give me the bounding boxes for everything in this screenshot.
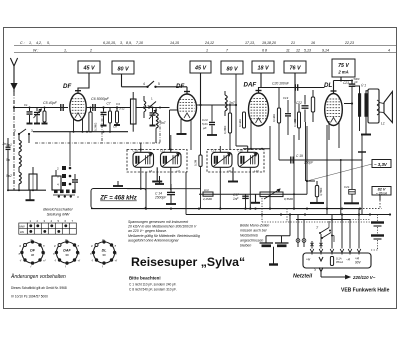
- wire 80V box 2 down riser: [235, 74, 237, 146]
- wire DAF bottom: [243, 148, 270, 150]
- svg-text:6 8: 6 8: [262, 49, 267, 53]
- resistor R1 input: [43, 111, 46, 122]
- voltage box 76V: [284, 61, 306, 73]
- svg-text:C11: C11: [160, 148, 165, 152]
- ground C21: [344, 202, 359, 204]
- svg-text:DAF: DAF: [244, 82, 257, 89]
- svg-text:DF: DF: [176, 83, 184, 90]
- svg-text:0,5MΩ: 0,5MΩ: [284, 197, 294, 201]
- svg-text:Änderungen vorbehalten: Änderungen vorbehalten: [10, 273, 66, 280]
- wire electrolytics ground: [273, 247, 275, 264]
- svg-text:1,: 1,: [64, 49, 67, 53]
- wire IF1 right riser: [185, 172, 187, 215]
- svg-text:Netzbetrieb: Netzbetrieb: [240, 234, 258, 238]
- loudspeaker L1: [368, 89, 379, 123]
- ground left: [29, 190, 31, 200]
- tube V2 DF mixer: [178, 94, 197, 121]
- wire rail B: [186, 214, 390, 216]
- socket pins on Netzteil top: [310, 249, 314, 253]
- IF transformer 1a: [133, 152, 154, 167]
- svg-text:80 V: 80 V: [117, 66, 128, 72]
- IF transformer 2a: [212, 152, 233, 167]
- svg-text:C :: C :: [20, 41, 25, 45]
- svg-text:C7: C7: [107, 102, 111, 106]
- tube socket diagram DAF96: [56, 242, 77, 263]
- wire to IF2 primary: [236, 145, 248, 147]
- svg-text:45 V: 45 V: [194, 65, 206, 71]
- svg-text:C15: C15: [211, 148, 217, 152]
- dotted rail to battery: [350, 219, 370, 221]
- svg-text:96: 96: [31, 253, 35, 257]
- label box ZF = 468 kHz: [91, 189, 146, 209]
- wire ground rail A: [91, 208, 360, 210]
- svg-text:C 8 nicht 540 pF, sondern 310: C 8 nicht 540 pF, sondern 310 pF.: [129, 288, 177, 292]
- svg-text:+H: +H: [306, 258, 311, 262]
- wire under IF1: [127, 188, 201, 190]
- voltage box 18V: [252, 61, 274, 73]
- wire oscillator section: [136, 107, 170, 109]
- voltage box 45V mixer: [190, 61, 211, 73]
- svg-text:4: 4: [143, 82, 145, 86]
- capacitor C21: [349, 190, 356, 195]
- svg-text:4,7MΩ: 4,7MΩ: [319, 188, 323, 196]
- resistor R8: [298, 112, 301, 128]
- svg-text:an 220 V~ gegen Masse.: an 220 V~ gegen Masse.: [128, 229, 167, 233]
- svg-text:5: 5: [158, 82, 160, 86]
- svg-text:80 V: 80 V: [226, 66, 237, 72]
- tube socket diagram DL96: [93, 242, 114, 263]
- wire to V2 anode: [156, 86, 188, 88]
- svg-text:0,1MΩ: 0,1MΩ: [272, 114, 276, 122]
- voltage box 80V IF: [221, 61, 243, 74]
- svg-text:C3: C3: [116, 102, 120, 106]
- svg-text:1,: 1,: [29, 41, 32, 45]
- wire V2 anode out: [197, 104, 237, 106]
- svg-text:2n: 2n: [2, 142, 7, 146]
- svg-text:C6 5000pF: C6 5000pF: [91, 97, 110, 101]
- resistor R5 pill: [228, 113, 231, 133]
- svg-text:L7: L7: [177, 169, 181, 173]
- svg-text:C 19: C 19: [296, 154, 303, 158]
- wire riser x340: [340, 160, 342, 215]
- svg-text:Netzteil: Netzteil: [293, 274, 313, 280]
- tube socket diagram DF96: [22, 242, 43, 263]
- svg-text:0,2M: 0,2M: [194, 159, 198, 166]
- wire AF line: [199, 193, 307, 195]
- IF filter block 2 dashed: [207, 150, 264, 173]
- ground AF: [255, 194, 257, 203]
- tube V1 DF RF amplifier: [70, 93, 86, 121]
- wire 82V box lead: [379, 195, 381, 200]
- mains lead 220/110V: [320, 272, 322, 278]
- wire DAF pin down: [250, 120, 252, 150]
- capacitor C8: [116, 111, 119, 123]
- svg-text:DAF: DAF: [63, 249, 71, 253]
- svg-text:müssen auch bei: müssen auch bei: [240, 229, 267, 233]
- electrolytic C27: [281, 236, 283, 243]
- wire riser x146: [145, 172, 147, 209]
- svg-text:VEB Funkwerk Halle: VEB Funkwerk Halle: [341, 288, 390, 294]
- wire C23 down: [351, 87, 353, 190]
- wire IF2 top leads: [219, 146, 221, 152]
- power supply box Netzteil: [303, 253, 371, 268]
- frame coil Sp3: [29, 174, 37, 190]
- svg-text:2: 2: [14, 129, 16, 133]
- IF transformer 2b: [238, 152, 259, 167]
- band switch contacts column: [62, 166, 66, 170]
- svg-text:4: 4: [388, 49, 390, 53]
- svg-text:L1: L1: [381, 122, 385, 126]
- wire secondary top: [366, 91, 368, 94]
- svg-text:1: 1: [206, 49, 208, 53]
- resistor R7: [277, 108, 280, 123]
- coupling coil block: [52, 176, 61, 190]
- svg-text:21: 21: [290, 41, 295, 45]
- ground above ZF box: [117, 181, 119, 186]
- capacitor C23 5000pF: [351, 81, 353, 84]
- svg-text:C23: C23: [343, 81, 349, 85]
- svg-text:W :: W :: [33, 49, 38, 53]
- svg-text:− 3,3V: − 3,3V: [374, 162, 388, 167]
- dotted battery line: [286, 209, 288, 222]
- IF transformer 1b: [161, 152, 182, 167]
- wire V1 anode to oscillator: [86, 107, 131, 109]
- svg-text:20 kΩ/V in den Meßbereichen 30: 20 kΩ/V in den Meßbereichen 300/100/10 V: [127, 225, 197, 229]
- svg-text:5,13: 5,13: [304, 49, 311, 53]
- svg-text:Sp1: Sp1: [6, 143, 12, 147]
- wire electrolytic feed: [289, 215, 291, 236]
- svg-text:6,10,15,: 6,10,15,: [103, 41, 116, 45]
- battery B1: [371, 221, 384, 223]
- svg-text:DF: DF: [30, 249, 36, 253]
- grounds V1 input: [29, 122, 31, 124]
- IF filter block 1 dashed: [127, 150, 187, 173]
- svg-text:2: 2: [89, 49, 92, 53]
- svg-text:0,1A: 0,1A: [336, 257, 342, 261]
- wire grid junction: [306, 180, 308, 182]
- svg-text:Bitte beachten!: Bitte beachten!: [129, 276, 161, 281]
- dotted pot-switch link: [261, 198, 263, 222]
- svg-text:C22: C22: [296, 101, 302, 105]
- svg-text:Reisesuper „Sylva“: Reisesuper „Sylva“: [131, 255, 245, 269]
- output transformer U1 secondary: [365, 94, 368, 117]
- wire V2 grid left: [170, 109, 179, 111]
- pointer line to -3.3V box: [307, 164, 372, 181]
- svg-text:12: 12: [296, 49, 300, 53]
- tube V4 DL output: [325, 94, 343, 126]
- capacitor C22: [302, 105, 309, 107]
- svg-text:Spannungen gemessen mit Instru: Spannungen gemessen mit Instrument: [128, 220, 189, 224]
- wire 18V box down to DAF: [259, 73, 262, 93]
- svg-text:75 V: 75 V: [338, 63, 349, 69]
- svg-text:MW: MW: [20, 224, 25, 228]
- switch contact 5: [154, 86, 156, 88]
- capacitor C19: [287, 100, 289, 113]
- svg-text:C16: C16: [238, 148, 244, 152]
- svg-text:DF: DF: [63, 83, 71, 90]
- resistor R 2.2M: [203, 192, 213, 196]
- svg-text:22,23: 22,23: [344, 41, 354, 45]
- wire 75V box to DL anode: [334, 77, 353, 94]
- switch contact 4: [146, 86, 148, 88]
- antenna lead dash-dot: [13, 92, 15, 190]
- wire IF1 bottom leads: [140, 167, 142, 188]
- svg-text:95mA: 95mA: [336, 260, 343, 264]
- voltage box 45V RF stage: [78, 61, 100, 73]
- band switch arm oscillator: [148, 106, 150, 108]
- svg-text:11: 11: [286, 49, 290, 53]
- svg-text:8,9,: 8,9,: [126, 41, 132, 45]
- wire mid rails right: [296, 219, 350, 221]
- volume potentiometer 0.5M log: [260, 192, 283, 197]
- resistor R6: [199, 155, 202, 166]
- svg-text:C1: C1: [24, 103, 28, 107]
- electrolytic C26: [265, 236, 267, 243]
- svg-text:ausgeführt ohne Antennensignal: ausgeführt ohne Antennensignal: [128, 238, 178, 242]
- svg-text:IV 10/10 Ps 1694/57 5000: IV 10/10 Ps 1694/57 5000: [11, 295, 48, 299]
- wire 45V box to V1 anode: [78, 73, 89, 91]
- svg-text:C5 40pF: C5 40pF: [43, 101, 58, 105]
- svg-text:C21: C21: [344, 185, 350, 189]
- wire DAF pin risers: [250, 120, 252, 149]
- wire 76V box down: [294, 73, 296, 103]
- svg-text:1k3: 1k3: [204, 188, 209, 192]
- svg-text:μF: μF: [202, 126, 207, 130]
- svg-text:L6: L6: [149, 169, 153, 173]
- svg-text:−A: −A: [346, 258, 350, 262]
- wire antenna to V1 grid: [14, 107, 68, 109]
- box -3.3V: [372, 160, 391, 168]
- svg-text:5,: 5,: [47, 41, 50, 45]
- svg-text:C20 100nF: C20 100nF: [272, 82, 290, 86]
- tuning gang link dash-dot: [35, 142, 160, 144]
- svg-text:14,15: 14,15: [170, 41, 179, 45]
- wire pot drop: [293, 194, 295, 208]
- band switch strip: [54, 190, 58, 194]
- svg-text:LW: LW: [20, 230, 24, 234]
- mains socket S: [319, 268, 323, 272]
- svg-text:90V: 90V: [355, 261, 362, 265]
- resistor R10 4.7M: [315, 186, 318, 197]
- resistor R2 pill: [89, 112, 92, 132]
- coil L4 oscillator: [156, 113, 158, 117]
- wire transformer secondary bottom to ground: [365, 117, 367, 135]
- tube V3 DAF demodulator: [249, 93, 269, 126]
- wire HT rail: [122, 86, 148, 88]
- trimmer C9: [152, 108, 154, 113]
- svg-text:220/110 V~: 220/110 V~: [352, 275, 376, 280]
- coil L5 feedback: [225, 95, 227, 99]
- resistor R3: [109, 111, 112, 123]
- oscillator coil L3: [131, 99, 137, 124]
- svg-text:DL: DL: [102, 249, 107, 253]
- wire V2 cathode ground: [180, 119, 182, 134]
- wire rail A dashed tail: [360, 208, 382, 210]
- svg-text:0,1MΩ: 0,1MΩ: [238, 119, 242, 127]
- svg-text:3,: 3,: [120, 41, 123, 45]
- svg-text:96: 96: [102, 253, 106, 257]
- svg-text:Stellung MW: Stellung MW: [47, 212, 71, 217]
- svg-text:3n7: 3n7: [160, 121, 166, 125]
- svg-text:pF: pF: [354, 80, 358, 84]
- wire R6 riser: [200, 105, 202, 155]
- svg-text:18 V: 18 V: [257, 65, 268, 71]
- svg-text:45 V: 45 V: [82, 65, 94, 71]
- rail junction dots: [145, 208, 147, 210]
- svg-text:250pF: 250pF: [303, 161, 314, 165]
- band switch table: [19, 223, 28, 234]
- svg-text:24,12: 24,12: [204, 41, 214, 45]
- antenna coil Sp2: [19, 172, 21, 176]
- svg-text:2,2MΩ: 2,2MΩ: [202, 197, 213, 201]
- wire lamp feeds: [297, 215, 299, 239]
- svg-text:C 1 nicht 110 pF, sondern 240: C 1 nicht 110 pF, sondern 240 pF.: [129, 283, 177, 287]
- svg-text:96: 96: [65, 253, 69, 257]
- svg-text:C19: C19: [283, 96, 289, 100]
- svg-text:Sp2: Sp2: [6, 174, 12, 178]
- ground IF block 1: [156, 167, 158, 181]
- plug crosses: [310, 243, 313, 246]
- wire contact column riser: [69, 132, 71, 166]
- capacitor C18 250pF line: [279, 159, 362, 161]
- svg-text:19,18,20: 19,18,20: [262, 41, 276, 45]
- antenna coil Sp1: [19, 140, 21, 144]
- wire risers right half: [269, 126, 271, 209]
- wire DL screen: [294, 103, 296, 122]
- ground rail A right: [350, 201, 352, 209]
- svg-text:DL: DL: [324, 82, 332, 89]
- svg-text:Dieses Schaltbild gilt ab Gerä: Dieses Schaltbild gilt ab Gerät Nr. 5968: [11, 286, 67, 290]
- svg-text:L10: L10: [254, 169, 259, 173]
- box 82V 95mA: [372, 187, 391, 196]
- wire DL pins down: [328, 121, 330, 140]
- svg-text:0,2MΩ: 0,2MΩ: [94, 123, 98, 131]
- svg-text:C10: C10: [133, 148, 139, 152]
- svg-text:angeschlossen: angeschlossen: [240, 239, 263, 243]
- svg-text:3: 3: [31, 129, 33, 133]
- svg-text:0,2MΩ: 0,2MΩ: [223, 126, 227, 134]
- battery dotted links: [377, 215, 379, 222]
- wire left ground lead: [8, 189, 46, 191]
- capacitor C4: [74, 174, 76, 179]
- svg-text:16: 16: [311, 41, 315, 45]
- svg-text:Ü 1: Ü 1: [361, 84, 366, 88]
- svg-text:L9: L9: [228, 169, 232, 173]
- wire IF1 top leads: [140, 143, 142, 152]
- svg-text:bleiben: bleiben: [240, 244, 251, 248]
- wire filament rail left: [33, 131, 128, 133]
- svg-text:≈ 95mA: ≈ 95mA: [376, 191, 387, 195]
- ground R10: [316, 197, 318, 203]
- svg-text:3-12: 3-12: [119, 107, 125, 111]
- grounds mid: [103, 124, 105, 126]
- voltage box 80V: [112, 61, 134, 74]
- voltage box 75V 2mA: [332, 59, 355, 77]
- svg-text:Beide Mono-Zellen: Beide Mono-Zellen: [240, 224, 269, 228]
- battery B2: [371, 234, 384, 236]
- resistor R9 grid DL: [311, 97, 314, 112]
- dial lamps: [296, 239, 300, 243]
- antenna: [13, 66, 15, 92]
- resistor AGC: [243, 112, 246, 128]
- wire osc coil to switch: [28, 134, 30, 143]
- coil L4a: [144, 101, 146, 105]
- wire 80V box down: [121, 74, 123, 87]
- svg-text:2500pF: 2500pF: [154, 196, 167, 200]
- antenna coil Sp4: [19, 155, 21, 159]
- wire 45V box 2 down: [200, 73, 202, 105]
- wire coil column: [18, 134, 20, 140]
- ground IF block 2: [232, 167, 234, 181]
- svg-text:9,14: 9,14: [322, 49, 329, 53]
- wire DL anode side: [344, 103, 352, 105]
- wire V2 pin right: [190, 119, 192, 150]
- svg-text:7,10: 7,10: [136, 41, 143, 45]
- svg-text:17,13,: 17,13,: [245, 41, 255, 45]
- wire transformer primary top: [352, 86, 360, 94]
- switch contact 2-3: [18, 133, 20, 135]
- svg-text:76 V: 76 V: [289, 65, 300, 71]
- svg-text:4,2,: 4,2,: [36, 41, 42, 45]
- dial-cord line C: [14, 45, 396, 47]
- dial-cord line W: [14, 52, 396, 54]
- svg-text:ZF = 468 kHz: ZF = 468 kHz: [99, 196, 137, 202]
- output transformer U1 primary: [358, 94, 361, 117]
- svg-text:Meßwerte gültig für Mittelwell: Meßwerte gültig für Mittelwelle. Betrieb…: [128, 234, 200, 238]
- wire V1 pins: [73, 119, 75, 132]
- wire IF2 bottom stubs: [219, 167, 221, 208]
- svg-text:2 mA: 2 mA: [337, 70, 348, 75]
- wires into Netzteil: [311, 241, 313, 249]
- wire transformer primary bottom: [359, 117, 361, 132]
- ground 2 above ZF box: [159, 176, 161, 184]
